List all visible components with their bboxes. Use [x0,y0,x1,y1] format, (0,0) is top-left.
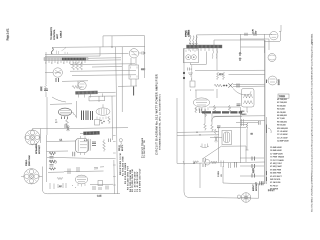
input socket J2 [21,169,39,184]
plug circle P4 [205,160,210,165]
wire h71 [70,70,136,73]
svg-text:R8 100,000: R8 100,000 [277,121,287,123]
wire curve right [52,97,66,102]
svg-text:STROMBERG-CARLSON TEL. MFG. CO: STROMBERG-CARLSON TEL. MFG. CO. ROCHESTE… [158,93,161,150]
wire right vertical [144,36,146,78]
label 2 marks [190,69,193,92]
svg-text:SW ON VOL: SW ON VOL [270,179,281,181]
wire h 90 [195,89,214,91]
svg-text:CABLE: CABLE [188,29,191,37]
resistor R25 [215,136,218,143]
svg-text:2500 OHM: 2500 OHM [29,155,31,166]
wire v 42 [41,167,43,190]
plug P3 [196,36,198,45]
wire stub [111,36,113,47]
wire pair h58 [88,57,121,59]
capacitor C16 [203,164,205,167]
wire v 240 top [240,34,242,53]
svg-text:6.3V: 6.3V [253,28,255,33]
wire loop [212,116,243,121]
label strip numbers [45,62,82,64]
resistor R18 [204,123,207,130]
filter capacitor C5 [86,111,88,121]
wire into T4 [210,137,222,139]
wire h9 [47,150,69,152]
wire drop2 [216,89,218,98]
label box LB1 [278,94,289,98]
svg-text:5: 5 [69,62,70,64]
svg-text:FIELD: FIELD [26,159,28,166]
junction dot [193,162,195,164]
capacitor C14 [217,126,221,128]
svg-text:SP SPKR: SP SPKR [270,189,279,191]
lead L2 [216,51,217,59]
wire h 124 [240,123,247,125]
tube V9 pins [200,144,209,148]
wire h 84 [233,83,265,85]
capacitor C18 [252,164,255,168]
resistor R14 [195,107,197,113]
wire down from strip [46,97,48,135]
junction marks [100,120,104,124]
power transformer T3 [242,89,255,108]
svg-text:.05: .05 [221,174,223,177]
wire bottom border [42,189,120,194]
wire h13 [47,157,116,158]
svg-text:V1 6SQ7 DET: V1 6SQ7 DET [270,163,283,165]
tube V11 [267,76,278,85]
svg-text:F1 2A FUSE: F1 2A FUSE [270,181,281,184]
capacitor C13 [237,104,241,106]
wire v 122 [121,47,123,112]
output transformer T4 [222,131,232,145]
plug P2 [192,36,194,45]
rectifier V10 [270,32,278,40]
wire bus stub [111,96,113,140]
terminal strip TS4 [187,45,223,51]
filter capacitor C6 [91,111,93,120]
wire v 240 mid [239,107,241,163]
parts table right col2 [270,147,285,191]
svg-text:C7 16MF 450V: C7 16MF 450V [270,153,283,155]
wire h3 [62,80,88,83]
label O marks [72,185,77,189]
capacitor C19 [252,174,255,178]
capacitor C9 [93,186,95,190]
svg-text:4: 4 [63,62,64,64]
label cluster text [218,171,223,177]
wire inner bus [113,160,115,194]
capacitor C28 [258,121,260,125]
svg-text:C8 8 MFD 450 VOLT: C8 8 MFD 450 VOLT [139,168,141,192]
wire rect leads [279,25,281,32]
svg-text:C5 8MF 450V: C5 8MF 450V [270,147,282,149]
electrolytic capacitor C3 [58,108,76,119]
svg-text:V5 5Y3 RECT: V5 5Y3 RECT [270,176,283,178]
wire h11 [90,183,113,185]
svg-text:Page 1 of 1: Page 1 of 1 [7,28,9,40]
wire bottom components [50,183,66,189]
wire h 120.6 [240,119,265,121]
svg-text:250K: 250K [41,86,43,91]
fuse X1 [228,83,232,87]
wire v 192 [191,65,193,81]
wire U curve [233,89,251,96]
wire h 116 [213,115,265,117]
tube V3 [78,81,86,89]
svg-text:TUBES: TUBES [279,96,286,98]
resistor R8 [108,116,110,124]
capacitor C1 [142,51,143,54]
label jack3 text [253,181,258,191]
svg-text:SOCKET: SOCKET [256,181,258,191]
wire h 41 [264,41,280,43]
wire pair h60 [88,59,121,61]
wire long lead [45,53,129,56]
junction dots [196,132,200,136]
wire h 166 [240,165,264,167]
wire bus ticks [113,136,116,186]
component cluster CL2 [94,167,104,169]
wire top rail [103,36,145,47]
svg-text:R7 1,500: R7 1,500 [277,118,285,120]
capacitor dots [223,85,227,87]
resistor R5 [72,86,82,89]
wire h 122 [236,122,258,124]
resistor R11 [223,72,225,80]
wire bus h2 [72,74,136,77]
svg-text:R4 2,000: R4 2,000 [277,109,285,111]
can capacitor CC1 [268,54,276,62]
capacitor C25 [109,139,111,143]
terminal label text block [51,26,63,40]
svg-text:file:///C:/Mike's%20Repair/WWW: file:///C:/Mike's%20Repair/WWW/Stations/… [311,41,314,212]
wire drop 217 [216,49,218,71]
wire grid lead [99,47,101,56]
capacitor C29 [73,152,75,157]
svg-text:C3 .25 200V: C3 .25 200V [277,137,288,139]
svg-text:8MFD: 8MFD [253,167,255,173]
wire bottom inner [223,182,259,185]
wire jack top [32,129,40,130]
wire left bus [184,48,259,198]
wire h10 [64,170,104,173]
wire T3 leads [247,107,248,112]
wire lead2 [45,55,100,57]
capacitor C8 [92,145,96,147]
svg-text:2: 2 [51,62,52,64]
wire v 200 [199,163,201,188]
resistor R1 [72,62,75,70]
speaker socket J1 [25,130,40,145]
wire v 269 [268,39,270,50]
wire h 176 [240,175,264,177]
resistor R22 [246,123,248,129]
wire h 158 [240,157,264,159]
capacitor C24 [239,52,241,61]
svg-text:UNIT: UNIT [57,33,59,39]
tube V5 [76,136,91,155]
svg-text:R6 500,000: R6 500,000 [277,115,287,117]
transformer T1 [129,65,139,79]
component CL3 [221,161,231,169]
wire jack2 lead [39,175,42,177]
wire h7 [80,132,90,134]
wire arc [57,48,68,55]
capacitor C11 [106,186,108,190]
wire input to V2 [45,71,53,73]
resistor R19 [211,124,214,131]
capacitor C7 [92,142,96,144]
svg-text:R3 50,000: R3 50,000 [277,105,286,107]
wire h12 [48,171,64,173]
svg-text:C1 .05 400V: C1 .05 400V [277,131,288,133]
svg-text:1 MEG: 1 MEG [218,171,220,177]
capacitor C12 [237,84,239,88]
resistor R21 [211,161,217,164]
resistor R9 [103,140,106,152]
lead L1 [212,51,213,59]
wire T4 bottom [222,146,246,162]
wire h 163 [177,162,265,164]
input terminal strip [44,58,88,64]
svg-text:3: 3 [57,62,58,64]
terminal strip TS3 [83,131,99,135]
wire T2 loop [190,52,206,65]
terminal strip TS2 [75,91,102,98]
label jack text block B [26,155,31,166]
wire v 265 main [264,40,266,184]
grid resistor R7 [95,120,100,126]
svg-text:R2 250,000: R2 250,000 [277,102,287,104]
wire v 247 [246,129,248,150]
wire h 39 [240,38,269,40]
tube V4 oval [96,108,110,115]
wire v 266 second [265,117,267,184]
antenna mark [185,30,189,35]
wire h 74 [229,73,266,75]
parts table right col1 [277,99,289,143]
wire v 218 [218,128,220,162]
capacitor C27 [200,109,202,114]
resistor R10 [217,72,219,80]
component box BX2 [98,181,103,186]
resistor R6 [66,119,69,128]
svg-text:T1 PWR TRANS: T1 PWR TRANS [270,156,285,159]
wire h 47 right [241,46,265,48]
capacitor C21 [68,169,70,175]
svg-text:V4 6V6 PWR: V4 6V6 PWR [270,173,282,175]
svg-text:T2 OUT TRANS: T2 OUT TRANS [270,159,284,162]
left schematic [21,26,146,193]
wire v 212 [211,113,213,124]
tick mark [183,161,185,165]
svg-text:SEC: SEC [141,69,146,71]
capacitor C23 [235,162,237,168]
svg-text:CABLE: CABLE [60,30,63,38]
svg-text:T2 OUTPUT TR: T2 OUTPUT TR [144,140,146,158]
resistor R16 [213,105,215,113]
resistor R2 [76,62,79,70]
svg-text:SPEAKER: SPEAKER [35,143,38,154]
capacitor C20 [245,33,256,36]
wire loop box [89,96,105,101]
svg-text:TO REMOTE: TO REMOTE [51,26,53,40]
switch S1 [51,48,53,54]
svg-text:TRANS: TRANS [240,113,247,116]
plug P1 [189,35,191,44]
B+ bus dark [202,111,242,113]
switch arc [268,128,271,133]
tube V7 oval [193,98,209,111]
wire h67 [92,66,122,68]
wire jack feed [41,128,47,130]
label C3 text [55,120,58,124]
antenna label text [186,29,191,37]
wire v 280 [280,32,282,42]
terminal ticks [260,181,263,185]
fuse box F1 [190,81,195,87]
capacitor C2 [44,89,48,91]
svg-text:CIRCUIT DIAGRAM No.512 WATT P: CIRCUIT DIAGRAM No.512 WATT POWER AMPLIF… [154,74,158,155]
label 6.3V text [253,28,258,33]
ground symbol G2 [188,73,193,76]
resistor R24 [214,129,216,134]
resistor R23 [57,177,63,179]
resistor R3 [80,62,83,70]
wire main bus [116,47,118,194]
wire v 264 [264,34,266,53]
wire h4 [50,103,72,106]
tube V2 [53,68,62,77]
wire h96 [105,95,116,97]
wire h 107 [209,106,240,108]
cathode network [56,78,59,82]
component cluster CL1 [49,152,56,170]
resistor R12 horizontal [214,84,222,87]
wire v 223 [222,166,224,183]
svg-text:C6 8MF 450V: C6 8MF 450V [270,150,282,152]
wire h 132 [177,131,219,134]
capacitor C22 [77,167,79,172]
component V marks [242,119,244,126]
svg-text:PWR: PWR [240,111,245,113]
wire second rail [52,46,145,49]
svg-text:5Y3GT: 5Y3GT [279,78,281,85]
resistor R17 [228,105,230,113]
fuse arrow [266,125,268,134]
capacitor C15 [203,158,205,162]
wire h6 [47,128,129,129]
tube V6 oval [75,175,87,186]
wire h 135 [177,134,219,137]
wire bus h1 [70,63,135,66]
wire bar extension [98,91,116,93]
wire right border [259,40,265,198]
wire left inner bus [176,98,178,163]
svg-text:R10 500,000: R10 500,000 [277,128,288,130]
bus dashes [266,171,268,181]
wire bus left [46,135,48,182]
wire v mid [77,81,79,86]
wire h rail 71 [195,69,265,71]
footer URL text [311,33,314,212]
socket pins [97,117,106,120]
right schematic [177,25,289,202]
caption CIRCUIT DIAGRAM [154,74,161,155]
wire T4 top [221,127,246,129]
wire v left [45,52,47,84]
svg-text:R1 250,000: R1 250,000 [277,99,287,101]
capacitor C26 [188,68,190,71]
svg-text:R9 25,000: R9 25,000 [277,125,286,127]
star mark [67,126,70,131]
resistor R15 [204,110,206,117]
parts table left [120,137,146,192]
svg-text:10/04/2011: 10/04/2011 [312,33,314,44]
svg-text:C2 .01 600V: C2 .01 600V [277,134,288,136]
capacitor C17 [252,157,255,161]
capacitor C10 [99,187,101,190]
svg-text:1.1: 1.1 [60,140,63,142]
wire h 86 [233,85,265,87]
capacitor C30 [65,124,67,128]
svg-text:CONTROL: CONTROL [54,29,56,40]
svg-text:60 CY.: 60 CY. [122,144,124,151]
label 115V note [119,144,124,151]
resistor R20 [193,161,199,163]
wire h 34 [197,35,273,46]
wire top rail right [214,40,264,45]
wire v 205 [204,109,206,123]
wire v 76 [75,101,77,117]
svg-text:R5 10,000: R5 10,000 [277,112,286,114]
wire h8 [47,140,76,142]
wire drop [195,90,197,98]
label jack text block A [35,143,41,154]
svg-text:INPUT: INPUT [253,184,255,191]
svg-text:SOCKET: SOCKET [39,144,41,154]
svg-text:V3 6V6 PWR: V3 6V6 PWR [270,169,282,171]
pilot circles [50,160,52,162]
input transformer T2 [183,49,198,63]
label T3 text [240,111,247,116]
wire v 40.7 [40,129,42,144]
svg-text:C4 8MF 450V: C4 8MF 450V [277,141,289,143]
grommet [237,195,240,199]
terminal dots [183,72,185,79]
tube V1 [129,49,138,58]
svg-text:V2 6SQ7 AVC: V2 6SQ7 AVC [270,165,282,168]
wire plate lead [139,52,142,54]
phono jack J3 [241,193,251,203]
wire diagonal [203,146,222,159]
resistor R4 [45,84,47,91]
filter capacitor C4 [82,111,84,121]
svg-text:PL PILOT: PL PILOT [270,185,279,187]
